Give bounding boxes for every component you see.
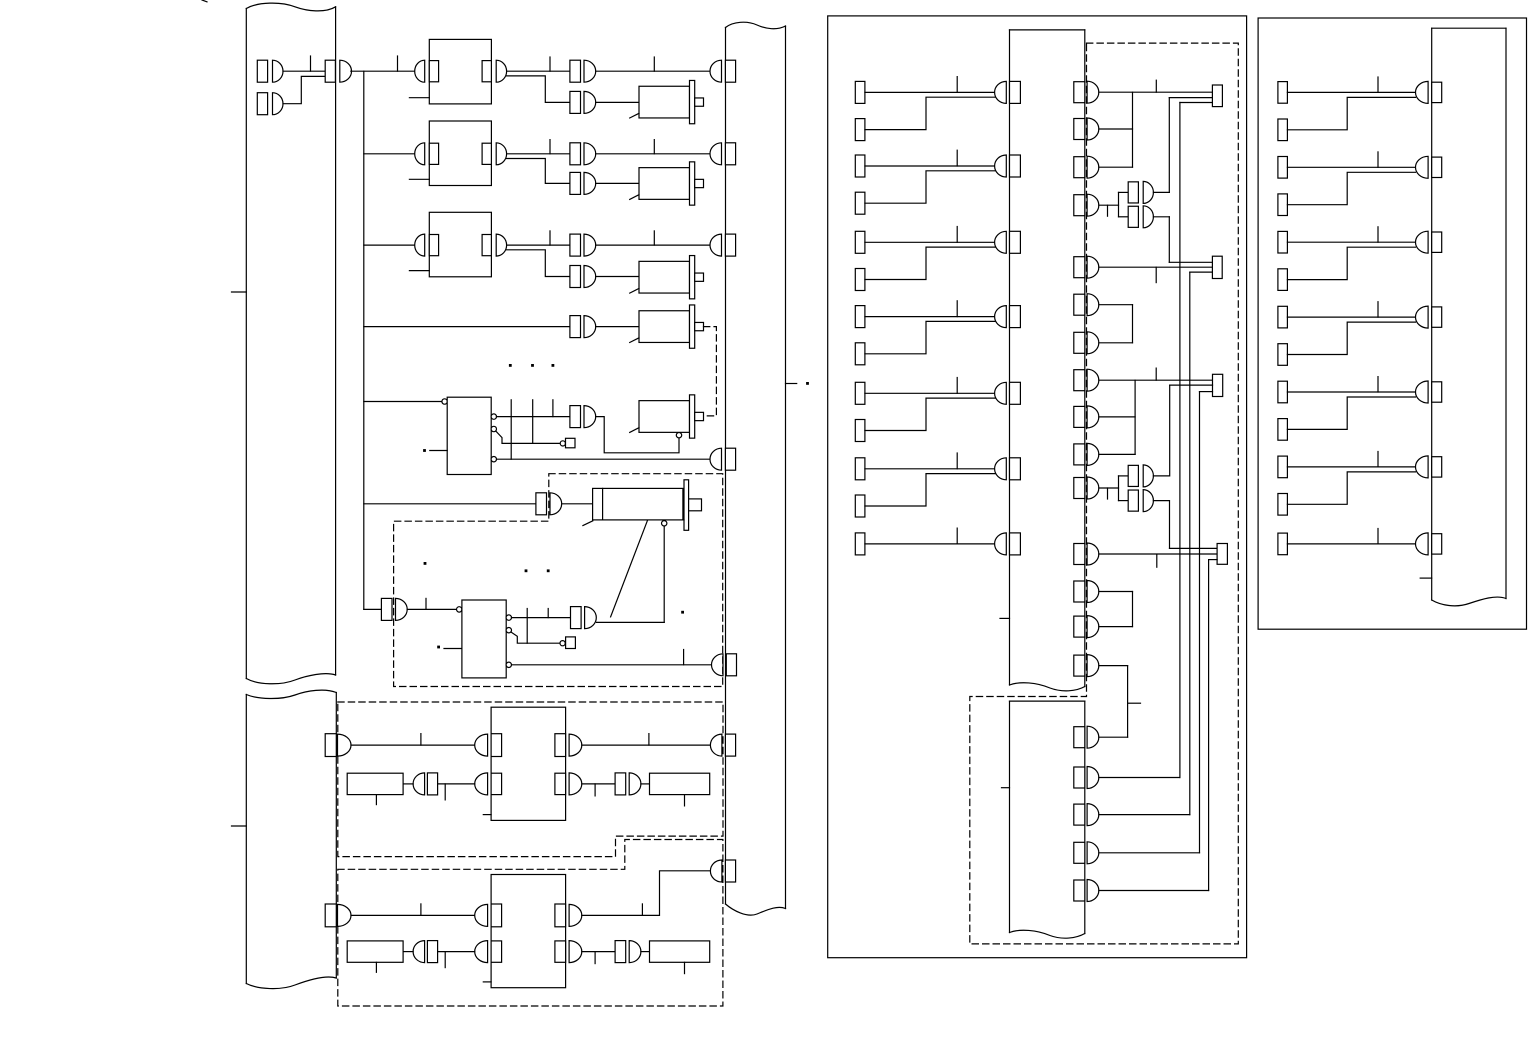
dot marker d2 (525, 569, 528, 572)
cylinder C1 flange (684, 480, 689, 531)
duct feed-through block (325, 60, 335, 82)
wire X3:11 (1287, 466, 1415, 468)
module K2 input port (429, 143, 438, 164)
wire A LL (403, 783, 413, 785)
connector block 1b (570, 91, 581, 113)
solenoid valve Y4 actuator mark (630, 338, 639, 343)
junction wire P1-P3 (1132, 92, 1134, 167)
AND 11b pin (1143, 490, 1153, 512)
column connector pin M5 (995, 382, 1007, 404)
wire A LL2 (438, 783, 475, 785)
wire AND11 to T4 (1170, 547, 1218, 549)
AND group 11 input link (1118, 476, 1120, 501)
wire row2 to duct (596, 153, 710, 155)
wire module K1 output (507, 70, 570, 72)
terminal X2:11 (855, 458, 865, 480)
rack column M1 stub (1000, 617, 1010, 619)
wire tick (653, 231, 655, 245)
terminal X3:11 (1278, 456, 1288, 478)
column port pin P9 (1087, 406, 1099, 428)
duct connector pin Bout (710, 860, 721, 882)
column port block P5 (1074, 257, 1085, 278)
terminal X2:10 (855, 420, 865, 442)
panel frame middle (828, 16, 1247, 958)
wire X1:1 to duct (283, 70, 325, 72)
bus branch wire row3 (364, 244, 415, 246)
wire to solenoid Y1 (596, 101, 639, 103)
wire module K3 output (507, 244, 570, 246)
connector block 1a (570, 60, 581, 82)
wire AND4 to T2 (1169, 261, 1212, 263)
AND 4a pin (1143, 181, 1153, 203)
column port pin P16 (1087, 726, 1099, 748)
column port block P15 (1074, 655, 1085, 676)
wire drop a (510, 400, 512, 459)
module UA LR port (555, 773, 566, 794)
wire tick below (444, 952, 446, 968)
cylinder C1 body (593, 488, 683, 520)
wire P11 feed (1099, 487, 1119, 489)
dot marker U5 (423, 449, 426, 452)
wire X2:3 (865, 165, 996, 167)
cable duct W1 left edge (245, 9, 247, 679)
dot marker d3 (547, 569, 550, 572)
riser AND4-T2 (1168, 217, 1170, 262)
duct feed-through pin (340, 60, 352, 82)
wire tick below (594, 952, 596, 964)
wire P2 (1099, 128, 1133, 130)
rack column M1 bottom break line (1010, 683, 1085, 691)
module UB UR port (555, 904, 566, 927)
bus branch wire row5 (364, 401, 442, 403)
wire tick (549, 140, 551, 154)
wire row7 output (597, 621, 665, 623)
wire B input (351, 914, 475, 916)
cable duct W2 right edge (335, 693, 337, 979)
column port block P8 (1074, 370, 1085, 391)
module K2 output pin (496, 143, 506, 165)
duct connector pin row5 (710, 448, 722, 470)
AND group 11 stub upper (1119, 475, 1129, 477)
wire X2:10 (865, 398, 996, 430)
terminal X2:7 (855, 306, 865, 328)
wire branch down row1 (507, 76, 570, 103)
wire tick (420, 904, 422, 916)
wire tick (397, 56, 399, 71)
module UA UL pin (475, 734, 488, 756)
wire U5 out2 run (496, 431, 560, 443)
wire tick (1377, 152, 1379, 167)
terminal X3:12 (1278, 494, 1288, 516)
wire A input (351, 744, 475, 746)
node circle U5 out1 (491, 414, 496, 419)
wire tick (1155, 368, 1157, 380)
terminal X3:8 (1278, 344, 1288, 366)
duct connector block Aout (725, 734, 735, 756)
column connector block M5 (1010, 382, 1021, 404)
wire drop b (532, 400, 534, 444)
column connector pin R2 (1416, 156, 1429, 178)
column connector block R4 (1432, 307, 1442, 327)
junction wire P15-P16 (1127, 666, 1129, 738)
wire X1:2 run (283, 76, 325, 103)
rack column M1 right edge (1084, 30, 1086, 687)
rack column R right edge (1505, 28, 1507, 598)
column connector pin M6 (995, 458, 1007, 480)
column port pin P6 (1087, 294, 1099, 316)
connector block 4 (570, 316, 581, 338)
column connector block M7 (1010, 533, 1021, 555)
wire X2:4 (865, 171, 996, 203)
duct connector pin row1 (710, 60, 722, 82)
module UB bottom stub (483, 981, 491, 983)
connector pin 3a (584, 234, 596, 256)
AND group 4 stub upper (1119, 191, 1129, 193)
device BB1 body (347, 941, 403, 962)
terminal T1 (1212, 85, 1222, 107)
wire tick (1377, 529, 1379, 544)
terminal T4 (1217, 544, 1227, 565)
wire U5 out1 (497, 416, 570, 418)
wire tick (1155, 80, 1157, 92)
column port pin P20 (1087, 880, 1099, 902)
module U5 body (447, 397, 491, 474)
module UB UL pin (475, 904, 488, 926)
terminal X2:3 (855, 155, 865, 177)
riser T1-AND4 (1168, 98, 1170, 193)
module K3 output port (482, 235, 491, 256)
wire P6 (1099, 304, 1133, 306)
wire X2:7 (865, 316, 996, 318)
module K2 input pin (415, 143, 425, 165)
wire drop e (547, 609, 549, 618)
wire tick (425, 598, 427, 609)
wire X3:4 (1287, 172, 1415, 204)
column port block P16 (1074, 727, 1085, 748)
solenoid valve Y4 port tab (695, 322, 704, 330)
solenoid valve Y3 actuator mark (630, 288, 639, 293)
riser T3-AND11 (1169, 385, 1171, 476)
module K1 bottom stub (409, 97, 429, 99)
column port pin P15 (1087, 655, 1099, 677)
column port pin P1 (1087, 81, 1099, 103)
wire tick (956, 301, 958, 317)
node circle U5 aux (560, 441, 565, 446)
AND 4b block (1128, 206, 1138, 227)
ellipsis dot 1 (509, 364, 512, 367)
wire P8 to T3 (1099, 379, 1213, 381)
wire tick (683, 650, 685, 665)
module UB LR port (555, 941, 566, 962)
aux block U5 (566, 438, 576, 448)
wire P3 (1099, 166, 1133, 168)
bus riser 1 (1179, 103, 1181, 778)
cylinder C1 actuator mark (583, 521, 593, 526)
AND 11b block (1128, 490, 1138, 511)
wire X2:5 (865, 241, 996, 243)
wire B LL (403, 951, 413, 953)
duct connector pin row3 (710, 234, 722, 256)
wire X2:13 (865, 543, 996, 545)
solenoid valve Y4 flange (690, 305, 695, 348)
column connector pin R7 (1416, 533, 1429, 555)
bus riser 4 (1208, 560, 1210, 891)
bus riser 3 (1199, 392, 1201, 853)
column connector pin M4 (995, 306, 1007, 328)
node circle U7 out3 (506, 662, 511, 667)
AND 4a block (1128, 182, 1138, 203)
module U7 body (462, 600, 506, 678)
wire P16 (1099, 736, 1128, 738)
connector block 2b (570, 172, 581, 194)
wire P14 (1099, 626, 1133, 628)
column port block P11 (1074, 478, 1085, 499)
cable duct W3 right edge (785, 26, 787, 909)
module UA bottom stub (483, 814, 491, 816)
column connector pin M3 (995, 231, 1007, 253)
device BA1 stub (375, 795, 377, 805)
duct connector pin Ain (338, 734, 352, 756)
pin X1:1 (273, 60, 284, 82)
wire X3:7 (1287, 316, 1415, 318)
wire P9 (1099, 416, 1135, 418)
wire tick below (594, 784, 596, 796)
wire drop d (526, 609, 528, 644)
column port block P4 (1074, 195, 1085, 216)
cylinder C1 port tab (689, 499, 702, 511)
module UA LR pin (569, 773, 582, 795)
node circle U7 out2 (506, 628, 511, 633)
wire tick below (1155, 267, 1157, 282)
module K3 body (429, 212, 491, 276)
solenoid valve Y1 actuator mark (630, 113, 639, 118)
terminal X2:13 (855, 533, 865, 555)
rack column R bottom break line (1432, 597, 1506, 606)
column port pin P19 (1087, 842, 1099, 864)
connector pin 3b (584, 266, 596, 288)
bus branch wire row2 (364, 153, 415, 155)
column connector block R2 (1432, 157, 1442, 177)
module UA LL pin (475, 773, 488, 795)
wire U7 out1 (512, 617, 571, 619)
wire C1 node down (663, 526, 665, 622)
module UA UR port (555, 734, 566, 757)
wire T2 return (1190, 271, 1213, 273)
connector pin 6 (550, 493, 562, 515)
wire to solenoid Y2 (596, 182, 639, 184)
wire X3:12 (1287, 472, 1415, 504)
wire AND 4b out (1153, 216, 1169, 218)
solenoid valve Y2 body (639, 168, 690, 200)
wire tick below (1107, 488, 1109, 499)
rack column M1 left edge (1009, 30, 1011, 685)
cable duct W1 top break line (246, 3, 335, 11)
wire tick (956, 453, 958, 469)
cable duct W1 right edge (335, 7, 337, 675)
dashed enclosure A (338, 702, 723, 857)
wire tick (549, 57, 551, 71)
solenoid valve Y5 body (639, 401, 690, 433)
wire X3:2 (1287, 97, 1415, 129)
column port pin P18 (1087, 804, 1099, 826)
piston rod line (611, 521, 648, 617)
wire tick (648, 734, 650, 746)
column connector block R6 (1432, 457, 1442, 477)
duct connector block row3 (725, 234, 735, 256)
ellipsis dot 2 (531, 364, 534, 367)
wire row1 to duct (596, 70, 710, 72)
column connector pin M2 (995, 155, 1007, 177)
wire T4 return (1209, 559, 1218, 561)
module UB UL port (491, 904, 502, 927)
column connector block M2 (1010, 155, 1021, 177)
column port pin P17 (1087, 767, 1099, 789)
node circle Y5 (676, 433, 681, 438)
module K1 input pin (415, 60, 425, 82)
AND group 11 stub lower (1119, 500, 1129, 502)
wire AND 11a out (1153, 475, 1169, 477)
wire T3 return a (1170, 384, 1213, 386)
wire X2:2 (865, 97, 996, 129)
wire P7 (1099, 342, 1133, 344)
terminal X3:13 (1278, 533, 1288, 555)
duct connector block Ain (325, 734, 336, 757)
wire X2:6 (865, 247, 996, 279)
wire tick (1377, 377, 1379, 392)
terminal X2:12 (855, 495, 865, 517)
stub P15-P16 loop (1128, 702, 1141, 704)
wire X2:8 (865, 321, 996, 353)
column port pin P4 (1087, 194, 1099, 216)
column port pin P5 (1087, 256, 1099, 278)
solenoid valve Y2 flange (690, 162, 695, 205)
solenoid valve Y5 flange (690, 395, 695, 438)
rack column M2 bottom break line (1010, 930, 1085, 938)
device BA1 body (347, 773, 403, 794)
connector pin AL (413, 773, 424, 795)
wire X2:1 (865, 91, 996, 93)
solenoid valve Y2 port tab (695, 179, 704, 187)
wire tick below (1156, 555, 1158, 567)
column port block P19 (1074, 842, 1085, 863)
corner mark top-left (202, 0, 207, 2)
device BB1 stub (375, 962, 377, 972)
rack column M1 top edge (1010, 29, 1085, 31)
connector block BR (615, 941, 626, 963)
wire U7 out3 to duct (512, 664, 712, 666)
solenoid valve Y2 actuator mark (630, 195, 639, 200)
column port pin P10 (1087, 443, 1099, 465)
connector pin 4 (584, 316, 596, 338)
wire A LR (582, 783, 615, 785)
column connector block M3 (1010, 231, 1021, 253)
wire A output (582, 744, 711, 746)
terminal X3:4 (1278, 194, 1288, 216)
solenoid valve Y3 body (639, 261, 690, 293)
wire P13 (1099, 591, 1133, 593)
module K3 input pin (415, 234, 425, 256)
column port block P14 (1074, 616, 1085, 637)
connector block AL (427, 773, 437, 795)
wire X3:5 (1287, 241, 1415, 243)
column connector block R5 (1432, 382, 1442, 402)
wire B LR (582, 951, 615, 953)
connector pin BR (629, 941, 641, 963)
margin stub upper (232, 291, 247, 293)
terminal X3:10 (1278, 419, 1288, 441)
node circle C1 (662, 521, 667, 526)
terminal T3 (1213, 374, 1223, 396)
AND group 4 input link (1118, 192, 1120, 216)
column connector pin M7 (995, 533, 1007, 555)
wire T1 return a (1169, 97, 1212, 99)
wire AND 4a out (1153, 191, 1169, 193)
wire AND 11b out (1153, 500, 1169, 502)
cable duct W1 bottom break line (246, 674, 335, 684)
node circle U5 out2 (491, 426, 496, 431)
module UB LL pin (475, 941, 488, 963)
wire P20 (1099, 890, 1209, 892)
solenoid valve Y1 body (639, 86, 690, 118)
column port pin P11 (1087, 477, 1099, 499)
dashed enclosure middle (970, 43, 1239, 944)
connector block 3a (570, 234, 581, 256)
connector pin 7in (396, 598, 408, 620)
column connector block R3 (1432, 232, 1442, 252)
connector pin AR (629, 773, 641, 795)
solenoid valve Y3 flange (690, 256, 695, 299)
terminal X2:1 (855, 81, 865, 103)
rack column R top edge (1432, 27, 1506, 29)
wire pair7 to U7 (407, 608, 456, 610)
AND group 4 stub lower (1119, 216, 1129, 218)
wire P18 (1099, 814, 1190, 816)
terminal X2:8 (855, 343, 865, 365)
wire tick (1377, 227, 1379, 242)
connector block 7out (571, 607, 582, 629)
column port block P12 (1074, 544, 1085, 565)
module K2 output port (482, 143, 491, 164)
connector block 7in (381, 598, 392, 620)
column connector pin M1 (995, 81, 1007, 103)
wire tick (1377, 452, 1379, 467)
column port block P6 (1074, 294, 1085, 315)
module K1 output pin (496, 60, 506, 82)
dot marker U7 (437, 646, 440, 649)
module K3 bottom stub (409, 270, 429, 272)
column port pin P3 (1087, 156, 1099, 178)
wire X2:11 (865, 468, 996, 470)
cable duct W3 left edge (725, 28, 727, 905)
column port block P13 (1074, 581, 1085, 602)
margin stub lower (232, 825, 247, 827)
wire branch down row2 (507, 159, 570, 184)
module UB LL port (491, 941, 502, 962)
column connector pin R3 (1416, 231, 1429, 253)
terminal X2:5 (855, 231, 865, 253)
connector pin 5 (584, 406, 596, 428)
module K2 bottom stub (409, 178, 429, 180)
wire X3:3 (1287, 166, 1415, 168)
device BA2 body (650, 773, 710, 794)
junction wire P8-P10 (1134, 380, 1136, 454)
module K1 body (429, 39, 491, 104)
terminal X2:6 (855, 269, 865, 291)
node circle U7 input (457, 607, 462, 612)
wire T1 return b (1180, 102, 1213, 104)
connector block 6 (536, 493, 547, 515)
aux block U7 (566, 637, 576, 649)
